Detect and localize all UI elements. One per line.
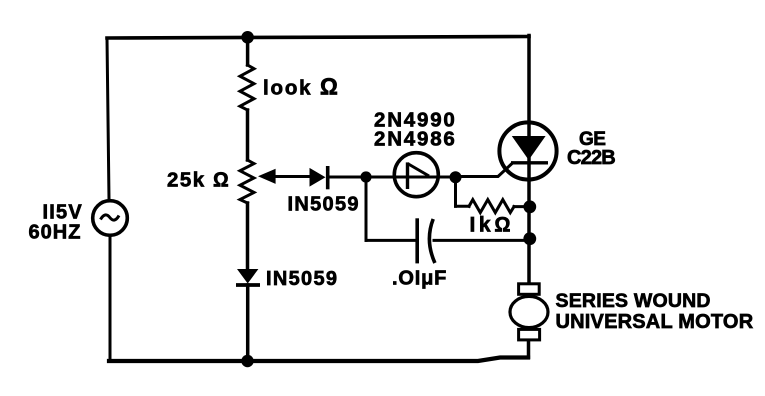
svg-text:2N4986: 2N4986 <box>374 127 457 150</box>
svg-text:60HZ: 60HZ <box>29 222 82 244</box>
svg-text:.OIμF: .OIμF <box>392 268 447 290</box>
svg-text:C22B: C22B <box>567 147 615 169</box>
svg-text:IkΩ: IkΩ <box>470 214 514 237</box>
svg-text:IN5059: IN5059 <box>266 268 338 290</box>
svg-text:UNIVERSAL MOTOR: UNIVERSAL MOTOR <box>556 311 754 333</box>
svg-text:SERIES WOUND: SERIES WOUND <box>556 290 711 312</box>
svg-text:25k Ω: 25k Ω <box>167 168 230 191</box>
svg-text:II5V: II5V <box>43 201 83 223</box>
svg-text:look Ω: look Ω <box>263 74 340 100</box>
svg-text:IN5059: IN5059 <box>288 194 360 216</box>
